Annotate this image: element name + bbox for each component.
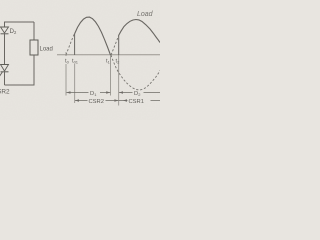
wire left vertical upper xyxy=(4,22,6,28)
guide line t2 xyxy=(118,55,120,106)
guide line t0 xyxy=(65,52,67,96)
solid turn-on edge at t2 xyxy=(118,36,120,56)
dashed sine lead-in before t2 xyxy=(111,36,119,56)
dimension line D2 span xyxy=(119,91,160,93)
wire left vertical lower xyxy=(4,72,6,85)
dashed negative half-sine xyxy=(111,55,160,90)
thyristor CSR2 xyxy=(0,65,9,78)
dashed sine lead-in before t01 xyxy=(66,34,75,56)
dimension line CSR2 span xyxy=(75,99,118,101)
guide line t1 xyxy=(110,55,112,96)
guide line t01 xyxy=(74,64,76,103)
solid half-sine hump 2 xyxy=(119,20,160,43)
resistor Load box xyxy=(30,40,38,55)
diode D2 xyxy=(1,27,9,34)
solid turn-on edge at t01 xyxy=(74,34,76,55)
time axis xyxy=(57,54,160,56)
wire right vertical lower xyxy=(33,55,35,86)
dimension line D1 span xyxy=(67,91,111,93)
wire left vertical middle xyxy=(4,34,6,65)
wire bottom horizontal xyxy=(5,84,35,86)
wire top horizontal xyxy=(5,21,35,23)
solid half-sine hump 1 xyxy=(75,17,111,55)
dimension line CSR1 span xyxy=(119,99,160,101)
wire right vertical upper xyxy=(33,22,35,40)
